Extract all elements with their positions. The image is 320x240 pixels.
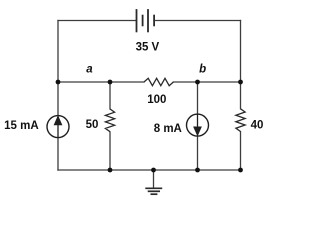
- svg-text:100: 100: [147, 94, 166, 106]
- svg-text:40: 40: [251, 119, 264, 131]
- svg-text:50: 50: [86, 119, 99, 131]
- svg-text:a: a: [86, 64, 93, 76]
- svg-text:b: b: [199, 63, 206, 75]
- svg-text:35 V: 35 V: [136, 42, 160, 54]
- svg-text:15 mA: 15 mA: [4, 120, 39, 132]
- svg-text:8 mA: 8 mA: [154, 123, 182, 135]
